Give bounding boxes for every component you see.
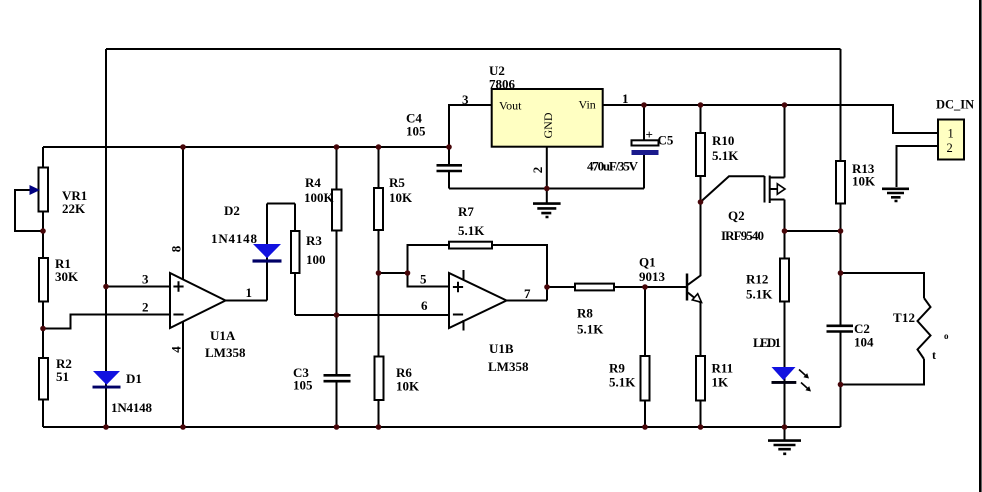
- svg-text:104: 104: [854, 335, 874, 350]
- svg-text:5.1K: 5.1K: [746, 287, 773, 302]
- wire Q2 source / R12 / LED column: [784, 200, 786, 428]
- svg-text:IRF9540: IRF9540: [721, 228, 764, 243]
- svg-text:R8: R8: [577, 306, 593, 321]
- ground symbol bottom rail: [768, 427, 801, 454]
- label U1A designator: [205, 328, 246, 360]
- junction x=378.5 y=427: [376, 424, 382, 430]
- svg-text:R11: R11: [712, 361, 734, 376]
- label R12 value: [746, 272, 773, 302]
- wire U2 pin 2 stub: [546, 147, 548, 203]
- svg-text:1N4148: 1N4148: [111, 400, 153, 415]
- junction x=183 y=147: [180, 144, 186, 150]
- junction x=43 y=328.5: [40, 326, 46, 332]
- junction x=784.5 y=105: [782, 102, 788, 108]
- wire U1B pin 6 bus: [295, 314, 449, 316]
- wire U1B pin 7 output: [507, 300, 548, 302]
- svg-text:Vin: Vin: [579, 98, 596, 112]
- wire Q1 collector: [688, 202, 701, 285]
- wire R9 column: [644, 287, 646, 427]
- label R11 value: [712, 361, 734, 390]
- label R1 value: [55, 256, 79, 284]
- wire R3 column: [294, 204, 296, 316]
- svg-text:LM358: LM358: [488, 359, 529, 374]
- wire DC_IN pin 2 to ground: [897, 146, 939, 187]
- svg-text:C5: C5: [658, 133, 674, 148]
- svg-text:Vout: Vout: [499, 99, 522, 113]
- op-amp U1A: [170, 273, 226, 328]
- svg-text:U1B: U1B: [489, 341, 514, 356]
- wire T12 branch top: [841, 273, 925, 298]
- label T12 designator: [893, 310, 949, 362]
- label VR1 value: [62, 188, 87, 216]
- wire bottom ground rail: [43, 426, 841, 428]
- label R5 value: [389, 175, 413, 205]
- label Q1 designator: [639, 255, 666, 285]
- svg-text:5: 5: [420, 272, 427, 287]
- junction x=645 y=287: [642, 284, 648, 290]
- junction x=378.5 y=147: [376, 144, 382, 150]
- label R2 value: [56, 356, 72, 384]
- wire R5/R6 column x=378.5: [378, 147, 380, 427]
- junction x=784.5 y=231: [782, 228, 788, 234]
- resistor R13: [836, 161, 845, 204]
- resistor R5: [374, 188, 383, 230]
- svg-text:DC_IN: DC_IN: [936, 98, 974, 112]
- wire U1A pin 3 input: [106, 286, 170, 288]
- resistor R1: [39, 258, 48, 302]
- junction x=700.5 y=427: [698, 424, 704, 430]
- svg-text:R10: R10: [712, 133, 734, 148]
- label Q2 designator: [721, 208, 764, 243]
- svg-text:1: 1: [622, 91, 629, 106]
- svg-text:10K: 10K: [389, 190, 413, 205]
- wire C5 column upper: [643, 105, 645, 141]
- resistor R8: [575, 284, 614, 291]
- capacitor C2: [827, 326, 854, 332]
- capacitor C3: [324, 375, 351, 381]
- svg-text:7806: 7806: [489, 77, 516, 92]
- resistor R11: [696, 356, 705, 401]
- junction x=336.5 y=315: [334, 312, 340, 318]
- wire U1A pin 2 input jog: [43, 315, 170, 329]
- svg-text:105: 105: [406, 124, 426, 139]
- svg-text:5.1K: 5.1K: [577, 322, 604, 337]
- svg-text:LM358: LM358: [205, 345, 246, 360]
- label R7 value: [458, 204, 485, 238]
- junction x=700.5 y=105: [698, 102, 704, 108]
- transistor Q1: [687, 274, 702, 304]
- svg-text:5.1K: 5.1K: [712, 148, 739, 163]
- svg-text:T12: T12: [893, 310, 915, 325]
- label D1 value: [111, 371, 153, 415]
- junction x=644 y=105: [641, 102, 647, 108]
- resistor R2: [39, 358, 48, 400]
- svg-text:Q1: Q1: [639, 255, 656, 270]
- svg-text:1: 1: [948, 127, 954, 141]
- svg-text:R3: R3: [306, 233, 322, 248]
- svg-text:GND: GND: [541, 112, 555, 138]
- svg-text:4: 4: [169, 346, 184, 353]
- svg-text:10K: 10K: [396, 379, 420, 394]
- diode D2: [253, 244, 282, 263]
- wire left D1 column x=106: [105, 49, 107, 427]
- wire R7 feedback loop: [408, 245, 548, 301]
- wire U1B pin 5 jog: [379, 273, 450, 287]
- wire Q1 emitter column: [700, 303, 702, 428]
- connector DC_IN box: [938, 120, 964, 160]
- svg-text:1N4148: 1N4148: [211, 231, 258, 246]
- wire U2 pin3 to C4 column: [449, 105, 492, 189]
- wire U1A power column x=183: [182, 147, 184, 427]
- wire R13/C2 column upper: [840, 49, 842, 325]
- junction x=546.8 y=188.5: [544, 186, 550, 192]
- LED LED1: [772, 367, 812, 392]
- label R8 value: [577, 306, 604, 337]
- label C4 value: [406, 111, 426, 139]
- junction x=336.5 y=427: [334, 424, 340, 430]
- label D2 value: [211, 203, 258, 246]
- junction x=43 y=231: [40, 228, 46, 234]
- svg-text:30K: 30K: [55, 269, 79, 284]
- capacitor C4: [437, 165, 463, 171]
- wire Q2 drain column: [784, 105, 786, 178]
- wire horizontal bus y=147: [43, 146, 449, 148]
- wire D2 column: [266, 204, 268, 301]
- wire D2 to R3 top link: [267, 203, 295, 205]
- svg-text:t: t: [932, 348, 936, 362]
- wire R4/C3 column upper: [336, 147, 338, 374]
- junction x=784.5 y=427: [782, 424, 788, 430]
- resistor R9: [641, 356, 650, 401]
- svg-text:9013: 9013: [639, 269, 666, 284]
- wire T12 branch bottom: [841, 359, 925, 385]
- svg-text:100K: 100K: [304, 190, 335, 205]
- junction x=840.5 y=384.5: [838, 382, 844, 388]
- diode D1: [93, 371, 121, 389]
- svg-text:22K: 22K: [62, 201, 86, 216]
- junction x=407.5 y=273: [405, 270, 411, 276]
- svg-text:+: +: [646, 127, 653, 142]
- label C3 value: [293, 365, 313, 393]
- regulator U2 box: [492, 89, 603, 147]
- svg-text:LED1: LED1: [753, 335, 781, 350]
- mosfet Q2: [765, 176, 786, 204]
- junction x=840.5 y=231: [838, 228, 844, 234]
- wire C5 column lower: [643, 155, 645, 189]
- svg-text:3: 3: [142, 272, 149, 287]
- thermistor T12: [918, 298, 931, 359]
- wire R4/C3 column lower: [336, 382, 338, 427]
- label R4 value: [304, 175, 335, 205]
- junction x=378.5 y=273: [376, 270, 382, 276]
- junction x=106 y=427: [103, 424, 109, 430]
- svg-text:U1A: U1A: [210, 328, 236, 343]
- svg-text:5.1K: 5.1K: [458, 223, 485, 238]
- label U2 designator: [489, 63, 516, 92]
- ground symbol under U2: [533, 204, 561, 217]
- svg-text:2: 2: [530, 167, 545, 174]
- svg-text:51: 51: [56, 369, 69, 384]
- resistor R7: [449, 242, 492, 249]
- junction x=336.5 y=147: [334, 144, 340, 150]
- svg-text:1: 1: [246, 285, 253, 300]
- resistor R4: [332, 190, 342, 231]
- wire ground bus under U2: [449, 188, 644, 190]
- svg-text:R7: R7: [458, 204, 474, 219]
- junction x=645 y=427: [642, 424, 648, 430]
- svg-text:7: 7: [524, 286, 531, 301]
- junction x=700.5 y=202: [698, 199, 704, 205]
- svg-text:D2: D2: [224, 203, 240, 218]
- svg-text:105: 105: [293, 378, 313, 393]
- wire Q2 gate lead: [701, 176, 765, 202]
- wire R10 column: [700, 105, 702, 202]
- svg-text:1K: 1K: [712, 375, 730, 390]
- wire Vin rail y=105 to DC_IN pin1: [603, 105, 938, 133]
- svg-text:100: 100: [306, 252, 326, 267]
- ground symbol under DC_IN: [882, 189, 909, 201]
- resistor R3: [291, 231, 300, 273]
- wire U1A pin 1 output: [226, 300, 268, 302]
- resistor R12: [780, 259, 789, 302]
- svg-text:10K: 10K: [852, 174, 876, 189]
- label C5 value: [587, 127, 674, 174]
- label R6 value: [396, 365, 420, 394]
- svg-text:6: 6: [421, 298, 428, 313]
- junction x=106 y=286.5: [103, 284, 109, 290]
- label R13 value: [852, 161, 876, 189]
- wire R13/C2 column lower: [840, 332, 842, 427]
- svg-text:470uF/35V: 470uF/35V: [587, 159, 639, 174]
- svg-text:Q2: Q2: [728, 208, 745, 223]
- svg-text:R4: R4: [305, 175, 321, 190]
- wire VR1 wiper loop: [15, 190, 43, 231]
- label U1B designator: [488, 341, 529, 374]
- svg-text:o: o: [944, 331, 949, 341]
- svg-text:R9: R9: [609, 361, 625, 376]
- label R10 value: [712, 133, 739, 163]
- resistor R6: [375, 357, 384, 401]
- capacitor C5: [632, 140, 659, 155]
- svg-text:5.1K: 5.1K: [609, 375, 636, 390]
- svg-text:2: 2: [142, 300, 149, 315]
- svg-text:8: 8: [169, 245, 184, 252]
- resistor R10: [696, 133, 705, 176]
- wire VR1/R1/R2 column x=43: [42, 147, 44, 427]
- sheet border right edge: [979, 0, 982, 492]
- svg-text:R5: R5: [389, 175, 405, 190]
- junction x=840.5 y=273: [838, 270, 844, 276]
- wire top supply bus: [106, 48, 841, 50]
- junction x=547 y=287: [544, 284, 550, 290]
- label C2 value: [854, 321, 874, 350]
- junction x=183 y=427: [180, 424, 186, 430]
- wire source to R13 column link y=231: [785, 230, 841, 232]
- label R9 value: [609, 361, 636, 390]
- svg-text:D1: D1: [126, 371, 142, 386]
- potentiometer VR1: [30, 168, 49, 212]
- op-amp U1B: [449, 270, 507, 331]
- wire base bus to Q1: [547, 286, 687, 288]
- svg-text:3: 3: [462, 92, 469, 107]
- junction x=449 y=147: [446, 144, 452, 150]
- svg-text:R12: R12: [746, 272, 768, 287]
- label R3 value: [306, 233, 326, 267]
- svg-text:2: 2: [947, 141, 953, 155]
